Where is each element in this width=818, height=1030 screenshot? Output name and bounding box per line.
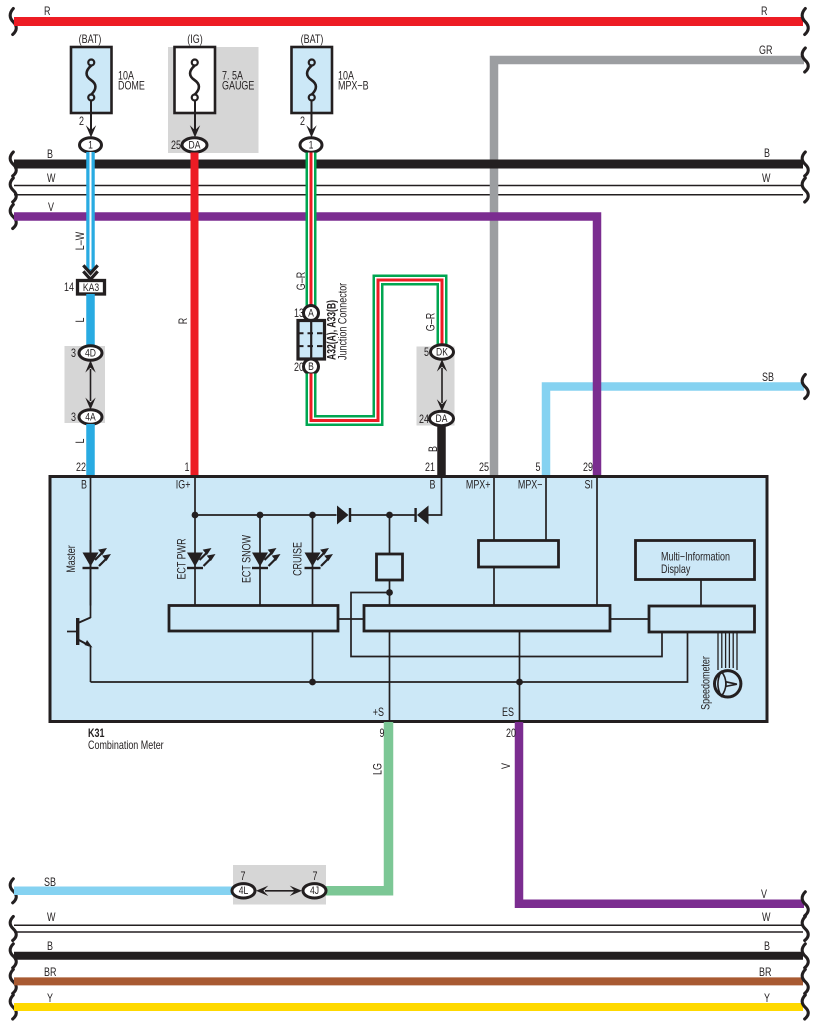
svg-text:ES: ES [502,707,514,719]
svg-text:R: R [761,6,767,18]
svg-text:25: 25 [479,462,489,474]
svg-text:7: 7 [313,871,318,883]
svg-text:B: B [430,480,436,492]
wire G-R loop from junction B to connector DK [311,280,442,421]
svg-text:W: W [762,912,771,924]
svg-text:V: V [501,763,513,769]
svg-text:2: 2 [79,116,84,128]
connector 4D pin 3 [71,346,102,361]
svg-text:SB: SB [44,877,56,889]
wire GR (gray, from right edge to pin 25 MPX+) [494,45,808,478]
connector 4L pin 7 [232,871,255,898]
svg-text:L: L [75,317,87,322]
connector 4A pin 3 [71,410,102,425]
svg-text:B: B [764,941,770,953]
svg-text:3: 3 [71,412,76,424]
gray panel connectors 4L/4J [233,865,326,905]
svg-text:Combination Meter: Combination Meter [88,740,164,752]
svg-text:KA3: KA3 [83,282,100,294]
svg-text:5: 5 [536,462,541,474]
svg-text:Display: Display [661,564,691,576]
LED ECT SNOW [242,515,281,606]
svg-text:IG+: IG+ [176,480,191,492]
svg-text:1: 1 [88,139,93,151]
svg-text:G–R: G–R [426,313,438,331]
svg-text:(IG): (IG) [187,34,202,46]
svg-text:V: V [48,202,54,214]
wire B (black) DA to meter pin 21 [428,426,441,478]
wire square-branch to rect2 (lower path) [351,593,662,657]
wire ES from rect1 bottom to pin 20 [502,631,523,720]
svg-text:ECT PWR: ECT PWR [177,538,189,579]
LED ECT PWR [177,515,216,606]
block Multi-Information Display [636,541,755,607]
svg-text:DK: DK [436,346,448,358]
svg-text:B: B [47,941,53,953]
fuse DOME 10A [71,34,145,131]
speedometer [701,632,741,710]
bus V (upper, violet; turns down to pin 29 SI) [10,202,597,478]
wire L (cyan) KA3 to 4D [75,294,90,346]
pin name labels inside meter top [81,480,593,492]
svg-text:Junction Connector: Junction Connector [338,282,350,360]
svg-text:A: A [308,308,314,320]
bus B (upper, black) [10,148,808,176]
svg-text:L–W: L–W [75,232,87,251]
inter-connector arrows 4D-4A [85,360,95,410]
wire R (red) DA to meter pin 1 [178,153,194,479]
svg-text:SI: SI [585,480,593,492]
svg-text:14: 14 [64,282,74,294]
svg-text:4L: 4L [239,885,249,897]
svg-text:4J: 4J [310,885,319,897]
fuse GAUGE 7.5A [175,34,255,131]
svg-text:W: W [47,173,56,185]
node D1/D2 junction [386,512,393,519]
svg-text:B: B [47,149,53,161]
diode D2 (pointing left) from pin 21 [390,478,442,525]
svg-text:5: 5 [424,347,429,359]
svg-text:+S: +S [373,707,384,719]
svg-text:W: W [47,912,56,924]
svg-text:MPX−: MPX− [518,480,543,492]
svg-text:R: R [44,6,50,18]
gray panel connectors DK/DA [417,347,455,426]
wire L (cyan) 4A to meter pin 22 [75,424,90,478]
svg-text:BR: BR [44,967,56,979]
svg-text:Multi−Information: Multi−Information [661,552,730,564]
svg-text:V: V [761,889,767,901]
bus W (upper, white outlined) [10,173,808,202]
wire SB (upper right, to pin 5 MPX-) [546,372,808,478]
svg-text:Y: Y [47,993,53,1005]
connector DA pin 24 [419,411,453,426]
node IG+ rail junctions [192,512,199,519]
gray panel connectors 4D/4A [65,346,106,423]
LED Master [66,540,111,606]
svg-text:22: 22 [76,462,86,474]
svg-text:20: 20 [506,728,516,740]
svg-text:29: 29 [583,462,593,474]
internal wire IG+ rail [195,478,337,515]
wire L-W (cyan/white stripe) from connector 1 down to KA3 [75,152,90,271]
block rect2 (right rectangle) [610,606,755,632]
gray panel around GAUGE fuse [168,47,259,153]
pin 2 arrow into connector 1 (MPX-B) [300,116,322,152]
K31 Combination Meter label [88,728,164,752]
svg-text:4A: 4A [85,411,96,423]
shield splice chevrons [83,265,97,279]
svg-text:1: 1 [309,139,314,151]
svg-text:W: W [762,173,771,185]
transistor Q1 [67,618,93,683]
svg-text:G–R: G–R [296,272,308,290]
inter-connector arrows 4L-4J [256,886,302,896]
block IC rect1 (center rectangle) [364,606,610,632]
svg-text:(BAT): (BAT) [301,34,324,46]
bus W (lower, white outlined) [10,912,808,940]
svg-text:Speedometer: Speedometer [701,656,713,710]
inter-connector arrows DK-DA [437,359,447,411]
K31 combination meter box [50,477,767,722]
svg-text:24: 24 [419,414,429,426]
bus Y (yellow) [10,993,808,1019]
svg-text:SB: SB [762,372,774,384]
svg-text:Y: Y [764,993,770,1005]
svg-text:R: R [178,318,190,324]
svg-text:ECT SNOW: ECT SNOW [242,535,254,583]
svg-text:B: B [428,446,440,452]
junction connector A32(A) A33(B) [294,282,350,374]
svg-text:K31: K31 [88,728,105,740]
svg-text:GR: GR [759,45,772,57]
LED CRUISE [293,515,333,606]
block IC rect0 (left long rectangle) [169,606,338,632]
svg-text:L: L [75,438,87,443]
svg-text:7: 7 [241,871,246,883]
svg-text:B: B [81,480,87,492]
wire SB (light blue) from left edge to connector 4L [10,877,234,903]
svg-text:25: 25 [171,140,181,152]
internal wire pin22 B down to master LED and transistor [90,478,92,618]
wire rect0 to rect1 [338,618,364,620]
svg-text:4D: 4D [85,347,96,359]
svg-text:CRUISE: CRUISE [293,542,305,576]
diode D1 (pointing right) [337,506,390,525]
wire G-R from connector 1 to junction connector A [296,153,311,307]
pin 2 arrow into connector 1 (DOME) [79,116,101,152]
svg-text:21: 21 [425,462,435,474]
svg-text:B: B [308,361,314,373]
fuse MPX-B 10A [292,34,369,131]
svg-text:BR: BR [759,967,771,979]
svg-text:MPX+: MPX+ [466,480,491,492]
svg-text:DOME: DOME [118,81,145,93]
svg-text:B: B [764,148,770,160]
svg-text:1: 1 [185,462,190,474]
junction KA3 [64,281,104,295]
wire SI pin29 to rect1 [596,478,598,606]
svg-text:9: 9 [380,728,385,740]
pin number labels above meter [76,462,593,474]
svg-text:Master: Master [66,545,78,573]
svg-text:DA: DA [189,139,201,151]
svg-text:2: 2 [300,116,305,128]
svg-text:GAUGE: GAUGE [222,81,254,93]
connector DK pin 5 [424,345,453,360]
block MPX transceiver rect [479,478,559,606]
wire LG (green) pin 9 to connector 4J [326,722,389,891]
svg-text:MPX−B: MPX−B [338,81,369,93]
bus BR (brown) [10,967,808,993]
wire V (violet) pin 20 to right edge [501,722,808,916]
svg-text:LG: LG [373,763,385,775]
bus B (lower, black) [10,941,808,968]
svg-text:(BAT): (BAT) [79,34,102,46]
pin 25 arrow into connector DA (GAUGE) [171,125,207,152]
svg-text:DA: DA [436,413,448,425]
emitter rail across bottom of meter [91,632,688,682]
connector 4J pin 7 [303,871,326,898]
wire +S from rect1 bottom to pin 9 [373,631,390,720]
bus R (top, red) [10,6,808,34]
square component [377,515,403,606]
wire rect0 bottom to emitter rail [309,631,316,685]
svg-text:3: 3 [71,348,76,360]
